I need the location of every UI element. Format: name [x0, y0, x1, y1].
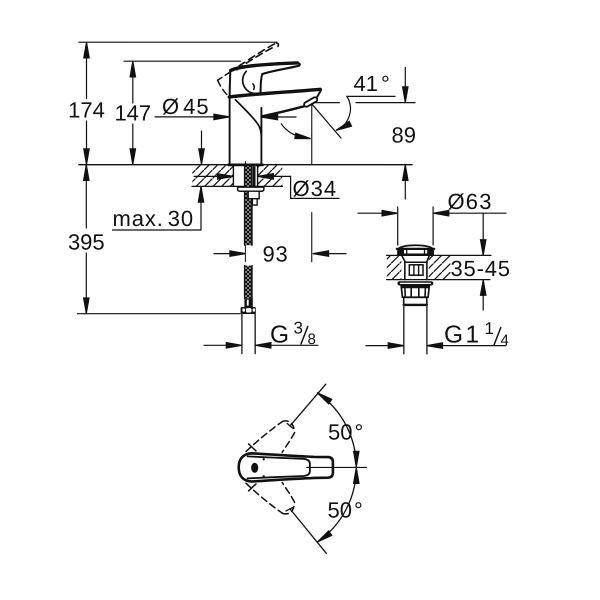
dashed pivot block [218, 72, 231, 81]
collar [404, 297, 427, 304]
395 bottom reference line [78, 313, 241, 315]
50 degree line upper [290, 384, 326, 426]
dimension 89 [392, 68, 416, 200]
handle neck right edge [261, 74, 263, 94]
svg-text:50°: 50° [328, 420, 363, 445]
dimension 147 [114, 61, 151, 164]
dashed down: short edge [282, 483, 294, 503]
mounting flange under deck [238, 187, 264, 191]
centerline tick above deck [245, 162, 247, 166]
dimension D63 [358, 189, 506, 245]
centerline in 93 gap [244, 245, 246, 261]
detail dots [263, 458, 265, 460]
svg-text:G1: G1 [444, 322, 482, 349]
upper tick [287, 424, 293, 429]
dimension D45 [155, 94, 296, 120]
svg-text:max.30: max.30 [113, 206, 195, 231]
hose nut [241, 307, 256, 314]
svg-text:395: 395 [68, 230, 105, 255]
small dash hook [253, 84, 254, 90]
svg-text:1: 1 [485, 319, 494, 338]
lever underside [262, 66, 299, 75]
flow arc under spout [281, 124, 309, 139]
dimension 395 [68, 165, 105, 314]
dashed raised lever upper edge [239, 43, 276, 66]
svg-text:G: G [270, 322, 289, 349]
base right edge [260, 108, 262, 165]
body left edge top [229, 70, 232, 97]
41 degree arc [336, 97, 350, 131]
aerator outlet [303, 96, 318, 107]
drain tail pipe [403, 306, 405, 354]
cap skirt [398, 250, 404, 254]
second hose edge (dark bar in hole) [253, 166, 256, 186]
dashed handle rotated down: long edge [246, 483, 283, 513]
svg-text:4: 4 [501, 332, 509, 349]
50 degree line lower [290, 509, 326, 553]
base left edge [229, 97, 231, 164]
handle outer outline [239, 453, 333, 481]
dimension 174 [68, 42, 105, 164]
interior base curve [235, 100, 261, 134]
svg-text:147: 147 [114, 101, 151, 126]
deck hatching right [258, 165, 283, 186]
dashed up: short edge [282, 433, 294, 453]
dimension G1 1/4 [366, 319, 509, 349]
crimp sleeve [244, 298, 252, 307]
spout direction line [312, 105, 341, 138]
upper 50 arc [317, 393, 356, 468]
extension line 147 [124, 60, 241, 62]
braided hose upper [245, 166, 252, 298]
svg-text:41°: 41° [354, 71, 390, 96]
drain deck hatch left [387, 256, 402, 279]
drain side window [409, 265, 423, 275]
svg-text:50°: 50° [328, 498, 363, 523]
dashed raised lever lower edge [237, 47, 275, 70]
lock nut [401, 286, 429, 298]
dimension 93 [214, 242, 346, 267]
svg-text:Ø45: Ø45 [162, 94, 210, 119]
svg-text:Ø34: Ø34 [293, 176, 338, 201]
89 reference line B (outlet level) [313, 102, 339, 104]
drain deck bottom line [387, 279, 490, 281]
spout top edge [229, 89, 320, 97]
lower tick [286, 507, 293, 511]
centerline right [306, 466, 366, 468]
deck bottom line [192, 185, 283, 187]
seal washer [397, 281, 433, 285]
lever tip [297, 63, 299, 66]
outlet vertical extension line [311, 105, 313, 165]
shoulder curve [243, 71, 257, 93]
svg-text:Ø63: Ø63 [448, 189, 493, 214]
drain cap dome [398, 245, 433, 249]
drain neck [402, 256, 405, 280]
svg-text:35-45: 35-45 [451, 256, 511, 281]
dashed up: cap stray dash [249, 444, 256, 451]
spout underside [262, 106, 304, 116]
deck line (mounting surface) [79, 164, 412, 166]
svg-text:89: 89 [392, 123, 416, 148]
handle logo oval [251, 463, 258, 473]
drain deck top line [387, 254, 491, 256]
deck hatching left [192, 165, 233, 186]
mounting step B [252, 199, 257, 205]
extension line 174 top [79, 41, 277, 43]
handle inner contour [248, 456, 310, 478]
dashed down: end cap [283, 503, 295, 514]
svg-text:174: 174 [68, 98, 105, 123]
spout end face [317, 90, 321, 98]
mounting step A [248, 191, 259, 199]
dimension 35-45 [451, 213, 511, 310]
hole edges in deck [232, 165, 234, 187]
lower 50 arc [317, 467, 356, 542]
dimension D34 [194, 174, 339, 201]
dashed down: cap stray dash [249, 484, 256, 491]
dashed handle rotated up: long edge [246, 421, 283, 451]
svg-text:93: 93 [263, 242, 289, 267]
lever blade top [231, 63, 298, 71]
G3/8 pipe [241, 314, 243, 354]
41 degree reference line A [347, 95, 395, 97]
dimension max. 30 [113, 131, 205, 231]
svg-text:8: 8 [308, 331, 316, 348]
dashed lever tip hook [276, 43, 278, 47]
svg-text:3: 3 [294, 319, 303, 338]
drain deck hatch right [429, 256, 451, 279]
dashed up: end cap [283, 421, 295, 432]
dimension G3/8 [204, 319, 318, 349]
